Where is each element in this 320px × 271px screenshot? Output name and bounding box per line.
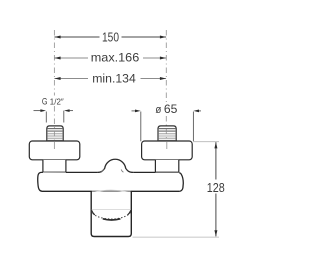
dimension 128 line: [214, 142, 217, 236]
left escutcheon plate: [29, 141, 80, 160]
dimension G 1/2: [34, 109, 74, 122]
dimension 128 extension top: [193, 141, 219, 143]
svg-text:65: 65: [164, 103, 178, 116]
right union block: [155, 160, 178, 172]
bar bottom edge right of spout: [131, 190, 179, 192]
left inlet nut G1/2: [47, 126, 63, 141]
spout sleeve bottom arc solid center: [103, 219, 121, 220]
mixer body bar: [38, 172, 184, 191]
spout top joint arc: [92, 190, 131, 192]
dimension diameter 65: [132, 110, 202, 142]
svg-text:128: 128: [207, 180, 225, 195]
dimension 150: [54, 36, 166, 39]
spout sleeve seam line: [92, 208, 131, 210]
dimension min.134: [54, 77, 166, 80]
dimension max.166: [54, 57, 166, 60]
dome fillet tick left: [101, 169, 103, 172]
dome fillet tick right: [121, 170, 123, 173]
svg-text:150: 150: [102, 30, 119, 44]
spout sleeve bottom arc dashed: [92, 210, 131, 219]
svg-text:min.134: min.134: [92, 72, 136, 86]
right inlet nut: [158, 126, 176, 141]
body bar top edge right segment: [133, 171, 155, 173]
bar bottom edge left of spout: [43, 190, 92, 192]
svg-text:1/2″: 1/2″: [50, 98, 64, 107]
centerline left inlet: [53, 30, 55, 150]
right escutcheon plate: [142, 141, 193, 160]
svg-text:ø: ø: [155, 104, 161, 116]
body bar top edge left segment: [66, 171, 98, 173]
label diameter 65: [153, 103, 180, 116]
spout body: [91, 192, 131, 237]
centerline right inlet: [165, 30, 167, 150]
svg-text:max.166: max.166: [91, 51, 140, 65]
label G 1/2: [38, 96, 66, 107]
left union block: [43, 160, 66, 172]
dimension 128 extension bottom: [133, 236, 220, 238]
svg-text:G: G: [42, 96, 48, 106]
cartridge dome: [97, 159, 133, 172]
